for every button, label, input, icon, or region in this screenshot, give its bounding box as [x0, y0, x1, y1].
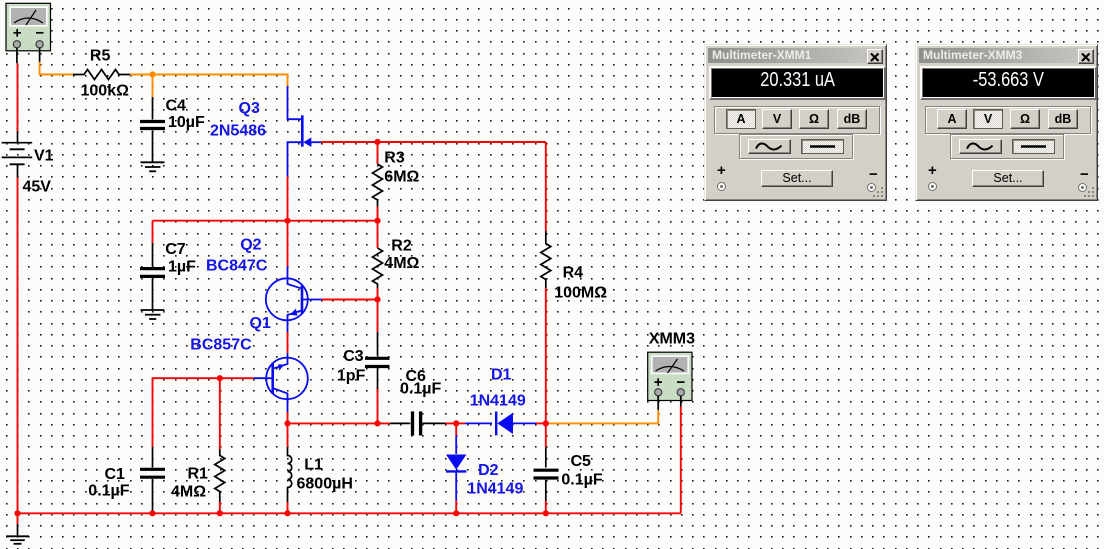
- wire orange to R5: [40, 62, 73, 75]
- svg-text:BC847C: BC847C: [206, 258, 268, 275]
- multimeter icon XMM1: [6, 3, 51, 51]
- node rail R1: [217, 510, 223, 516]
- resistor R2: [373, 221, 383, 300]
- diode D1: [456, 412, 546, 436]
- capacitor C6: [390, 411, 456, 435]
- svg-text:C3: C3: [343, 348, 364, 365]
- resistor R3: [373, 142, 383, 221]
- svg-text:1pF: 1pF: [337, 368, 366, 385]
- capacitor C5: [534, 423, 559, 513]
- inductor L1: [288, 423, 292, 513]
- node R4 bottom: [543, 420, 549, 426]
- wire red Q2 base to R2: [322, 299, 378, 301]
- svg-text:R4: R4: [563, 265, 584, 282]
- capacitor C7: [140, 221, 165, 310]
- svg-text:4MΩ: 4MΩ: [171, 484, 206, 501]
- svg-text:V1: V1: [34, 148, 54, 165]
- node R2 bottom: [374, 296, 380, 302]
- ground under C7: [141, 310, 165, 319]
- svg-text:6800µH: 6800µH: [297, 476, 353, 493]
- wire red left column top: [17, 63, 19, 131]
- node D1 D2: [453, 420, 459, 426]
- Multimeter-XMM1 window: [704, 44, 887, 201]
- wire red Q3 source down: [287, 176, 289, 220]
- svg-text:1N4149: 1N4149: [470, 393, 526, 410]
- svg-text:C4: C4: [166, 98, 187, 115]
- svg-text:0.1µF: 0.1µF: [561, 472, 602, 489]
- capacitor C1: [140, 447, 165, 513]
- capacitor C3: [365, 300, 390, 424]
- wire orange C4 drop: [152, 75, 154, 98]
- svg-text:Q3: Q3: [239, 100, 260, 117]
- svg-text:D1: D1: [491, 367, 512, 384]
- svg-text:C7: C7: [165, 241, 186, 258]
- svg-text:Q2: Q2: [240, 237, 261, 254]
- battery V1: [2, 132, 33, 178]
- capacitor C4: [140, 97, 165, 162]
- node C3 bottom: [374, 420, 380, 426]
- node R1 top: [217, 375, 223, 381]
- multimeter icon XMM3: [648, 352, 692, 400]
- svg-text:6MΩ: 6MΩ: [384, 169, 419, 186]
- resistor R1: [215, 378, 225, 513]
- svg-text:0.1µF: 0.1µF: [88, 483, 129, 500]
- wire XMM3 minus lead: [680, 396, 682, 407]
- node rail L1: [284, 510, 290, 516]
- diode D2: [446, 423, 466, 513]
- svg-text:100MΩ: 100MΩ: [554, 285, 607, 302]
- svg-text:100kΩ: 100kΩ: [81, 83, 130, 100]
- transistor Q3 JFET: [288, 86, 322, 176]
- wire orange across top: [153, 75, 288, 87]
- wire red bottom rail: [18, 512, 682, 514]
- svg-text:2N5486: 2N5486: [210, 123, 266, 140]
- svg-text:C1: C1: [105, 466, 126, 483]
- wire red Q2 collector: [287, 221, 289, 267]
- svg-text:R3: R3: [384, 150, 405, 167]
- node rail ground: [14, 510, 20, 516]
- svg-text:BC857C: BC857C: [190, 337, 252, 354]
- wire red Q1 base line: [153, 378, 254, 447]
- node R3 bottom: [374, 218, 380, 224]
- node rail C5: [543, 510, 549, 516]
- svg-text:R2: R2: [391, 238, 412, 255]
- svg-text:D2: D2: [478, 462, 499, 479]
- svg-text:R5: R5: [90, 47, 111, 64]
- transistor Q2: [266, 266, 322, 332]
- wire orange to XMM3 icon: [546, 410, 658, 423]
- svg-text:45V: 45V: [23, 178, 52, 195]
- Multimeter-XMM3 window: [915, 44, 1098, 201]
- node R3 top: [374, 139, 380, 145]
- wire red mid2 line: [288, 422, 391, 424]
- wire red gate line: [321, 141, 546, 143]
- ground under C4: [141, 162, 165, 171]
- node orange junction: [149, 71, 155, 77]
- svg-text:C5: C5: [571, 453, 592, 470]
- wire red left column: [17, 178, 19, 514]
- svg-text:1N4149: 1N4149: [467, 481, 523, 498]
- wire XMM3 plus lead: [657, 396, 659, 410]
- node L1 top: [284, 420, 290, 426]
- node rail D2: [453, 510, 459, 516]
- svg-text:4MΩ: 4MΩ: [384, 255, 419, 272]
- wire red mid line: [153, 220, 378, 222]
- wire XMM1 + lead: [16, 48, 18, 63]
- wire red Q2 emitter to Q1: [287, 332, 289, 353]
- svg-text:R1: R1: [188, 466, 209, 483]
- svg-text:1µF: 1µF: [168, 259, 196, 276]
- svg-text:0.1µF: 0.1µF: [400, 381, 441, 398]
- svg-text:XMM3: XMM3: [649, 331, 695, 348]
- wire red Q1 collector down: [287, 412, 289, 423]
- svg-text:Q1: Q1: [250, 315, 271, 332]
- wire XMM1 minus lead: [39, 48, 41, 62]
- ground bottom left: [6, 513, 29, 544]
- svg-text:L1: L1: [304, 457, 323, 474]
- resistor R5: [73, 70, 130, 80]
- node rail C1: [149, 510, 155, 516]
- wire orange R5 to node: [130, 74, 153, 76]
- node mid line Q2: [284, 218, 290, 224]
- wire red XMM3 to rail: [680, 407, 682, 514]
- transistor Q1: [254, 353, 308, 412]
- svg-text:10µF: 10µF: [168, 114, 205, 131]
- resistor R4: [541, 142, 551, 423]
